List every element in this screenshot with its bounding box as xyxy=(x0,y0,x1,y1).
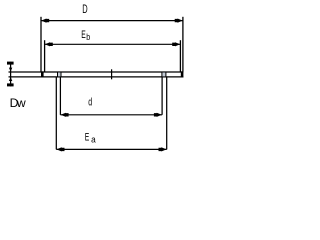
svg-text:b: b xyxy=(86,32,90,42)
Dw top serif bar xyxy=(7,62,14,65)
dimension d: extension line left (under roller right flank) xyxy=(59,78,61,115)
roller left xyxy=(58,72,62,77)
dimension D: left arrow xyxy=(41,19,49,23)
dimension D: extension line left xyxy=(40,17,42,72)
dimension Eb: extension line right xyxy=(179,40,181,71)
dimension Eb: left arrow xyxy=(45,42,53,46)
dimension Ea: extension line left (under roller left flank) xyxy=(55,78,57,150)
Dw down arrow xyxy=(9,68,12,72)
dimension Ea: extension line right (under roller right flank) xyxy=(166,78,168,150)
cage bar top line xyxy=(41,71,183,73)
svg-text:d: d xyxy=(88,96,92,108)
dimension D: extension line right xyxy=(182,17,184,72)
Dw bottom serif bar xyxy=(7,83,14,86)
svg-text:a: a xyxy=(91,135,96,145)
dimension d: extension line right (under roller left flank) xyxy=(161,78,163,115)
cage right end cap xyxy=(181,71,184,77)
dimension Eb: right arrow xyxy=(172,42,180,46)
dimension Ea: dimension line xyxy=(56,148,166,150)
roller right xyxy=(162,72,166,77)
Dw leader top xyxy=(9,71,42,73)
svg-text:E: E xyxy=(85,131,90,143)
cage center tick xyxy=(111,69,113,79)
cage left end cap xyxy=(41,71,44,77)
dimension d: dimension line xyxy=(60,114,162,116)
dimension D: dimension line xyxy=(41,20,183,22)
cage bar bottom line xyxy=(41,76,183,78)
Dw dimension vertical line xyxy=(10,62,12,87)
dimension Ea: left arrow xyxy=(57,147,65,151)
dimension Ea: right arrow xyxy=(159,147,167,151)
dimension d: left arrow xyxy=(61,113,69,117)
Dw leader bottom xyxy=(9,76,42,78)
dimension D: right arrow xyxy=(175,19,183,23)
dimension Eb: dimension line xyxy=(45,43,181,45)
svg-text:E: E xyxy=(81,29,86,41)
svg-text:D: D xyxy=(82,4,87,16)
dimension d: right arrow xyxy=(154,113,162,117)
Dw up arrow xyxy=(9,77,12,81)
svg-text:w: w xyxy=(16,96,26,110)
dimension Eb: extension line left xyxy=(44,40,46,71)
